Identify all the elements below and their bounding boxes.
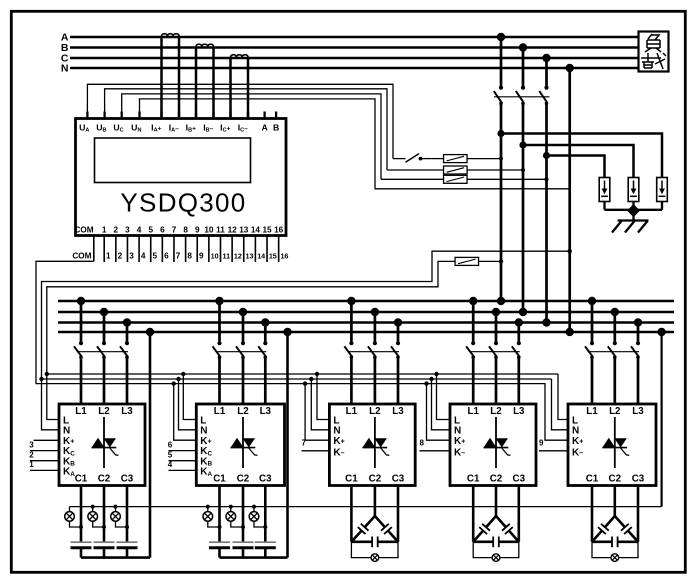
svg-text:9: 9 [539, 439, 544, 448]
svg-text:C1: C1 [345, 474, 358, 485]
node N rail start [39, 377, 43, 381]
wire L rail to box5 [558, 374, 568, 420]
node G4 N rail tap [429, 377, 433, 381]
pin 14 [254, 236, 256, 263]
wire Ia+ drop [160, 37, 163, 119]
node G1 lamp1 join [79, 525, 83, 529]
pin COM [93, 236, 95, 262]
wire G4 L3 lower [517, 357, 520, 404]
CT coil phase B [196, 44, 213, 47]
pin 3 [126, 236, 128, 263]
svg-text:C3: C3 [121, 474, 134, 485]
wire lamp HL22 bottom [231, 521, 243, 527]
wire L feed [47, 261, 455, 419]
switch G2 pole 2 [241, 341, 245, 345]
node G5 tap L2 [611, 308, 619, 316]
switch G1 pole 2 [102, 341, 106, 345]
capacitor G5 delta left [605, 516, 615, 527]
node phase C to bus [542, 318, 550, 326]
switch G4 pole 1 [471, 341, 475, 345]
node arrester feed 2 [519, 141, 526, 148]
node G2 lamp1 join [218, 525, 222, 529]
capacitor G4 delta bottom [473, 540, 493, 543]
wire G1 L3 lower [126, 357, 129, 404]
thyristor module box G3 [329, 404, 415, 486]
pin UA [86, 112, 88, 119]
wire phase A drop upper [500, 37, 503, 86]
wire terminal 7 stub [302, 450, 330, 452]
svg-text:C2: C2 [369, 474, 382, 485]
wire G2 L3 upper [264, 323, 267, 342]
svg-text:COM: COM [72, 251, 91, 260]
pin 2 [115, 236, 117, 263]
lamp HL13 [114, 505, 118, 509]
wire G4 L1 upper [472, 301, 475, 341]
svg-text:3: 3 [129, 251, 134, 260]
wire N feed [42, 251, 570, 430]
capacitor G1 C1 [71, 541, 92, 543]
node G1 tap L3 [123, 318, 131, 326]
node G2 K+ rail tap [172, 381, 176, 385]
pin 12 [231, 236, 233, 263]
wire phase A drop lower [500, 103, 503, 301]
svg-text:L1: L1 [346, 406, 358, 417]
svg-text:15: 15 [269, 251, 277, 260]
capacitor G2 C1 [209, 541, 230, 543]
wire G1 L1 lower [80, 357, 83, 404]
wire G4 C2 down [495, 486, 498, 517]
wire G2 neutral [286, 332, 289, 558]
wire N drop [568, 68, 571, 332]
wire phase C drop lower [545, 103, 548, 322]
wire lamp rail drop [660, 332, 662, 507]
CT coil phase A [162, 34, 179, 37]
svg-text:5: 5 [153, 251, 158, 260]
node G3 N rail tap [309, 377, 313, 381]
ground [618, 219, 649, 221]
wire G2 C3 down [264, 486, 267, 543]
node L rail start [45, 372, 49, 376]
node N tap [566, 64, 574, 72]
svg-text:15: 15 [262, 225, 272, 234]
node G2 tap L1 [215, 297, 223, 305]
triac V2 [242, 417, 244, 468]
wire G2 L3 lower [264, 357, 267, 404]
wire G2 C2 down [242, 486, 245, 543]
wire G5 C2 down [613, 486, 616, 517]
svg-text:K–: K– [572, 448, 583, 459]
svg-text:C3: C3 [392, 474, 405, 485]
wire G4 L [437, 374, 451, 420]
switch G5 pole 2 [613, 341, 617, 345]
switch S1 (sense) [393, 158, 406, 160]
pin IB– [212, 112, 214, 119]
svg-text:YSDQ300: YSDQ300 [120, 188, 246, 218]
node G4 tap L2 [492, 308, 500, 316]
wire Ib- drop [212, 48, 215, 119]
node G2 tap L2 [239, 308, 247, 316]
svg-text:COM: COM [74, 225, 93, 234]
wire lamp HL11 bottom [70, 521, 82, 527]
node arrester feed 1 [497, 130, 504, 137]
node phase A tap [497, 33, 505, 41]
node G4 K+ rail tap [424, 381, 428, 385]
node G1 lamp2 join [102, 525, 106, 529]
fuse FU4 (L feed) [455, 257, 479, 265]
wire FU1 to phase A [467, 158, 501, 160]
capacitor G3 delta right [375, 516, 385, 527]
svg-text:L2: L2 [609, 406, 621, 417]
triac V3 [374, 417, 376, 468]
pin IA+ [160, 112, 162, 119]
svg-text:10: 10 [211, 251, 219, 260]
pin IC– [247, 112, 249, 119]
pin UC [121, 112, 123, 119]
pin 8 [185, 236, 187, 263]
svg-text:N: N [61, 63, 69, 75]
svg-text:C3: C3 [513, 474, 526, 485]
wire Uc sense [122, 94, 381, 179]
node G3 tap L3 [394, 318, 402, 326]
switch G2 tie bar [216, 351, 266, 353]
node G1 tap L2 [100, 308, 108, 316]
node G4 L rail tap [434, 372, 438, 376]
wire Ua sense [87, 84, 393, 158]
svg-text:12: 12 [234, 251, 242, 260]
svg-text:L3: L3 [392, 406, 404, 417]
breaker QF pole C [544, 86, 548, 90]
pin A [263, 112, 265, 119]
glyph zai [641, 53, 666, 69]
pin 1 [103, 236, 105, 263]
svg-text:C1: C1 [467, 474, 480, 485]
node G1 tap L1 [77, 297, 85, 305]
wire FU3 to phase C [467, 178, 547, 180]
wire N rail [42, 378, 552, 380]
bus bar 4 [58, 331, 674, 334]
arrester F2 [628, 178, 639, 202]
wire G2 L2 upper [242, 312, 245, 341]
lamp HL5 [592, 542, 611, 558]
node phase A to bus [497, 297, 505, 305]
wire G5 L2 lower [613, 357, 616, 404]
svg-text:13: 13 [239, 225, 249, 234]
wire G3 C2 down [374, 486, 377, 517]
breaker QF pole A [499, 86, 503, 90]
wire phase B drop lower [522, 103, 525, 312]
node G2 neutral tap [283, 328, 291, 336]
svg-text:11: 11 [222, 251, 230, 260]
pin 7 [173, 236, 175, 263]
pin IB+ [195, 112, 197, 119]
pin 6 [161, 236, 163, 263]
switch G2 pole 1 [217, 341, 221, 345]
pin 10 [208, 236, 210, 263]
pin 4 [138, 236, 140, 263]
wire lamp HL13 bottom [116, 521, 128, 527]
svg-text:6: 6 [168, 440, 173, 449]
switch G3 pole 3 [396, 341, 400, 345]
wire G5 L2 upper [613, 312, 616, 341]
capacitor G5 delta right [615, 516, 625, 527]
pin 5 [150, 236, 152, 263]
lamp HL21 [206, 505, 210, 509]
wire G1 L2 lower [103, 357, 106, 404]
wire Ub sense [105, 89, 387, 170]
capacitor G4 delta left [486, 516, 496, 527]
pin B [275, 112, 277, 119]
node G3 L rail tap [315, 372, 319, 376]
svg-text:K+: K+ [572, 436, 583, 447]
svg-text:12: 12 [228, 225, 238, 234]
svg-text:4: 4 [168, 460, 173, 469]
wire G1 L2 upper [103, 312, 106, 341]
wire G3 L1 lower [350, 357, 353, 404]
wire G2 L1 upper [218, 301, 221, 341]
wire terminal 4 stub [169, 469, 197, 471]
wire L rail [47, 373, 558, 375]
node lamp rail to bus4 [657, 328, 665, 336]
svg-text:5: 5 [168, 451, 173, 460]
capacitor G1 C2 [94, 541, 115, 543]
wire to ground [632, 211, 634, 221]
node phase B to bus [519, 308, 527, 316]
capacitor G4 delta right [496, 516, 506, 527]
svg-text:7: 7 [176, 251, 181, 260]
svg-text:1: 1 [29, 460, 34, 469]
node G4 tap L1 [469, 297, 477, 305]
triac V1 [103, 417, 105, 468]
pin UB [103, 112, 105, 119]
wire Ia- drop [178, 37, 181, 119]
triac V5 [614, 417, 616, 468]
svg-text:B: B [273, 123, 279, 133]
svg-text:K+: K+ [454, 436, 465, 447]
lamp HL11 [69, 507, 71, 512]
switch G3 pole 2 [373, 341, 377, 345]
node L feed junction on phase A [499, 259, 503, 263]
switch G5 tie bar [589, 351, 640, 353]
svg-text:2: 2 [118, 251, 123, 260]
svg-text:1: 1 [106, 251, 111, 260]
svg-text:8: 8 [183, 225, 188, 234]
bus bar 2 [58, 311, 674, 314]
svg-text:L2: L2 [237, 406, 249, 417]
svg-text:14: 14 [251, 225, 261, 234]
pin 15 [266, 236, 268, 263]
wire Ic+ drop [229, 58, 232, 119]
wire terminal 8 stub [420, 450, 451, 452]
wire terminal 2 stub [30, 460, 59, 462]
wire Ic- drop [247, 58, 250, 119]
switch G1 pole 1 [79, 341, 83, 345]
pin UN [138, 112, 140, 119]
lamp HL22 [229, 505, 233, 509]
wire G3 L3 lower [397, 357, 400, 404]
svg-text:L3: L3 [513, 406, 525, 417]
pin 11 [220, 236, 222, 263]
wire G1 C3 down [126, 486, 129, 543]
svg-text:C3: C3 [632, 474, 645, 485]
wire G3 L2 upper [374, 312, 377, 341]
switch G5 pole 3 [636, 341, 640, 345]
capacitor G3 delta left [365, 516, 375, 527]
wire arrester feed 3 [547, 156, 605, 178]
svg-text:7: 7 [172, 225, 177, 234]
switch G4 pole 3 [517, 341, 521, 345]
pin IC+ [229, 112, 231, 119]
svg-text:8: 8 [419, 439, 424, 448]
capacitor G2 C3 [255, 541, 276, 543]
node G3 tap L2 [371, 308, 379, 316]
thyristor module box G2 [196, 404, 284, 486]
wire terminal 3 stub [30, 450, 59, 452]
wire G2 C1 down [218, 486, 221, 543]
wire G3 L2 lower [374, 357, 377, 404]
switch G2 pole 3 [263, 341, 267, 345]
wire G4 L1 lower [472, 357, 475, 404]
wire G4 C1 down [472, 486, 475, 542]
pin 9 [196, 236, 198, 263]
svg-text:8: 8 [187, 251, 192, 260]
wire arrester F2 bottom [632, 202, 634, 210]
wire G2 K+ [174, 384, 197, 441]
arrester F1 [599, 178, 610, 202]
svg-text:C2: C2 [98, 474, 111, 485]
svg-text:L2: L2 [490, 406, 502, 417]
svg-text:5: 5 [148, 225, 153, 234]
wire G5 L1 upper [591, 301, 594, 341]
node G3 tap L1 [347, 297, 355, 305]
svg-text:L2: L2 [98, 406, 110, 417]
wire G3 C3 down [397, 486, 400, 542]
arrester F3 [657, 178, 668, 202]
node G2 lamp3 join [263, 525, 267, 529]
switch G4 tie bar [470, 351, 520, 353]
fuse FU1 [444, 155, 468, 163]
node G2 L rail tap [181, 372, 185, 376]
svg-text:9: 9 [195, 225, 200, 234]
wire arrester common [605, 209, 663, 211]
svg-text:4: 4 [137, 225, 142, 234]
wire arrester feed 1 [501, 134, 662, 178]
svg-text:3: 3 [125, 225, 130, 234]
wire arrester F3 bottom [661, 202, 663, 210]
wire arrester feed 2 [523, 145, 634, 178]
breaker QF pole B [521, 86, 525, 90]
node phase B tap [519, 43, 527, 51]
capacitor G5 delta bottom [592, 540, 612, 543]
wire G5 L3 upper [637, 323, 640, 342]
fuse FU3 [444, 175, 468, 183]
wire G4 K+ [427, 384, 451, 441]
pin IA– [178, 112, 180, 119]
wire arrester F1 bottom [603, 202, 605, 210]
pin 13 [243, 236, 245, 263]
controller U1 YSDQ300 box [76, 119, 287, 236]
wire G3 K+ [305, 384, 329, 441]
switch G1 tie bar [78, 351, 129, 353]
svg-text:C2: C2 [609, 474, 622, 485]
svg-text:C2: C2 [490, 474, 503, 485]
node G4 tap L3 [515, 318, 523, 326]
svg-text:C2: C2 [237, 474, 250, 485]
wire G2 N [179, 379, 197, 430]
wire lamp HL12 bottom [93, 521, 104, 527]
bus bar 1 [58, 300, 674, 303]
svg-text:2: 2 [29, 451, 34, 460]
capacitor G2 C2 [233, 541, 254, 543]
lamp HL4 [473, 542, 492, 558]
svg-text:K–: K– [333, 448, 344, 459]
thyristor module box G1 [59, 404, 145, 486]
wire G4 C3 down [517, 486, 520, 542]
svg-text:L2: L2 [369, 406, 381, 417]
node G2 N rail tap [176, 377, 180, 381]
wire FU2 to phase B [467, 169, 523, 171]
svg-text:K–: K– [454, 448, 465, 459]
node N to bus4 [566, 328, 574, 336]
svg-text:6: 6 [164, 251, 169, 260]
node G2 lamp2 join [241, 525, 245, 529]
breaker tie bar [494, 96, 550, 98]
svg-text:L1: L1 [214, 406, 226, 417]
svg-text:11: 11 [216, 225, 225, 234]
node arrester star point [627, 204, 640, 217]
svg-text:6: 6 [160, 225, 165, 234]
wire G4 L3 upper [517, 323, 520, 342]
svg-text:16: 16 [274, 225, 284, 234]
svg-text:C1: C1 [586, 474, 599, 485]
wire terminal 9 stub [539, 450, 568, 452]
wire G3 L3 upper [397, 323, 400, 342]
svg-text:L1: L1 [586, 406, 598, 417]
glyph fu [645, 34, 661, 52]
svg-text:L1: L1 [467, 406, 479, 417]
node arrester feed 3 [543, 152, 550, 159]
node G5 tap L3 [634, 318, 642, 326]
wire phase C drop upper [545, 58, 548, 86]
wire G2 L [183, 374, 196, 420]
svg-text:9: 9 [199, 251, 204, 260]
wire G5 L1 lower [591, 357, 594, 404]
wire terminal 1 stub [30, 469, 59, 471]
wire G2 cap common [220, 556, 288, 559]
svg-text:2: 2 [114, 225, 119, 234]
svg-text:L3: L3 [260, 406, 272, 417]
wire G3 L [317, 374, 329, 420]
capacitor G3 delta bottom [351, 540, 372, 543]
wire G1 cap common [81, 556, 150, 559]
wire N rail to box5 [552, 379, 569, 430]
wire COM to K+ rail [36, 261, 568, 440]
switch G5 pole 1 [590, 341, 594, 345]
svg-text:C1: C1 [75, 474, 88, 485]
svg-text:L1: L1 [75, 406, 87, 417]
capacitor G1 C3 [117, 541, 138, 543]
node G3 K+ rail tap [303, 381, 307, 385]
svg-text:13: 13 [246, 251, 254, 260]
lamp HL12 [91, 505, 95, 509]
wire G3 C1 down [350, 486, 353, 542]
CT coil phase C [230, 55, 248, 58]
wire phase B drop upper [522, 48, 525, 86]
wire G5 C1 down [591, 486, 594, 542]
wire G4 L2 lower [495, 357, 498, 404]
wire G1 L3 upper [126, 323, 129, 342]
switch G1 pole 3 [125, 341, 129, 345]
wire G2 L2 lower [242, 357, 245, 404]
